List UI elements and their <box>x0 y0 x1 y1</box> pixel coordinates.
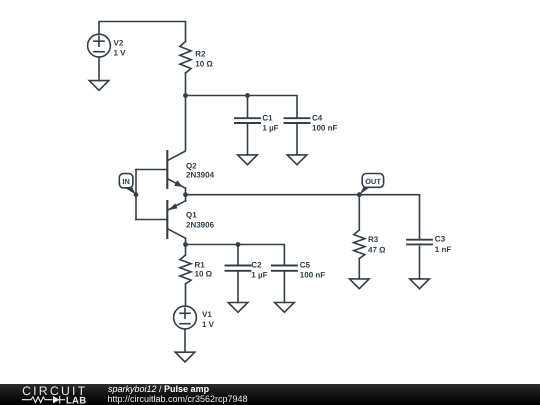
junction node OUT <box>357 192 362 197</box>
footer bar <box>0 384 540 405</box>
capacitor C3 <box>407 240 432 245</box>
ground below C1 <box>238 155 258 165</box>
capacitor C5 <box>272 266 297 271</box>
svg-text:LAB: LAB <box>66 395 87 405</box>
svg-text:100 nF: 100 nF <box>300 271 325 280</box>
svg-text:Q1: Q1 <box>186 211 197 220</box>
wire R1 to V1 <box>185 284 187 306</box>
wire V1 bottom lead <box>184 330 186 353</box>
wire R2 bottom lead <box>185 73 187 96</box>
wire Q2 base lead <box>136 169 167 171</box>
wire emitter row to C3 <box>186 195 420 240</box>
wire C1 bottom lead <box>247 123 249 155</box>
node IN flag <box>119 174 136 195</box>
capacitor C2 <box>226 266 251 271</box>
svg-text:47 Ω: 47 Ω <box>368 245 386 254</box>
svg-text:10 Ω: 10 Ω <box>195 269 213 278</box>
svg-text:1 V: 1 V <box>114 49 127 58</box>
wire Q1 collector row to C5 <box>186 245 285 266</box>
wire Q2 collector lead <box>167 96 185 161</box>
resistor R3 <box>354 230 365 259</box>
wire C4 bottom lead <box>296 123 298 155</box>
wire C2 top lead <box>237 245 239 266</box>
svg-text:C2: C2 <box>251 261 262 270</box>
voltage source V2 <box>88 34 111 57</box>
wire C3 bottom lead <box>419 247 421 279</box>
svg-text:C5: C5 <box>300 261 311 270</box>
svg-text:R3: R3 <box>368 235 379 244</box>
wire R3 bottom lead <box>358 259 360 279</box>
resistor R2 <box>180 42 191 74</box>
wire R1 top lead <box>185 245 187 256</box>
CircuitLab logo <box>0 0 1 1</box>
resistor R1 <box>180 255 191 284</box>
svg-text:C4: C4 <box>312 114 323 123</box>
wire R3 top lead <box>358 195 360 230</box>
svg-text:V2: V2 <box>114 39 124 48</box>
wire node A row to C4 <box>186 96 298 119</box>
Q1 emitter arrow <box>168 203 177 210</box>
svg-text:C1: C1 <box>262 114 273 123</box>
ground below V1 <box>175 352 195 362</box>
svg-text:2N3904: 2N3904 <box>186 171 215 180</box>
svg-text:100 nF: 100 nF <box>312 124 337 133</box>
wire V2 bottom lead <box>98 57 100 81</box>
svg-text:1 V: 1 V <box>202 320 215 329</box>
ground below R3 <box>350 279 370 289</box>
svg-text:1 nF: 1 nF <box>435 245 452 254</box>
junction node C2 top <box>236 242 241 247</box>
svg-text:C3: C3 <box>435 235 446 244</box>
wire C2 bottom lead <box>237 271 239 303</box>
svg-text:10 Ω: 10 Ω <box>195 60 213 69</box>
junction node C1 top <box>245 93 250 98</box>
junction node Q1 collector <box>183 242 188 247</box>
wire C1 top lead <box>247 96 249 119</box>
voltage source V1 <box>174 306 197 329</box>
svg-text:Q2: Q2 <box>186 162 197 171</box>
wire C5 bottom lead <box>283 271 285 303</box>
svg-text:1 µF: 1 µF <box>251 271 267 280</box>
capacitor C4 <box>285 118 310 123</box>
ground below C4 <box>287 155 307 165</box>
svg-text:1 µF: 1 µF <box>262 124 278 133</box>
wire Q1 base lead <box>136 219 167 221</box>
footer credit text <box>108 384 209 394</box>
wire IN vertical <box>135 170 137 220</box>
node OUT flag <box>359 174 383 195</box>
svg-text:OUT: OUT <box>365 177 381 186</box>
ground below C3 <box>410 279 430 289</box>
svg-text:R2: R2 <box>195 49 206 58</box>
svg-text:R1: R1 <box>195 261 206 270</box>
wire V2 top to R2 top <box>99 22 186 42</box>
transistor Q1 <box>167 195 185 245</box>
junction node under R2 <box>183 93 188 98</box>
ground below V2 <box>89 81 109 91</box>
transistor Q2 <box>167 151 185 195</box>
capacitor C1 <box>235 118 260 123</box>
ground below C5 <box>275 303 295 313</box>
ground below C2 <box>228 303 248 313</box>
junction node emitters <box>183 192 188 197</box>
svg-text:V1: V1 <box>202 310 212 319</box>
svg-text:2N3906: 2N3906 <box>186 220 215 229</box>
Q2 emitter arrow <box>174 180 183 187</box>
svg-text:IN: IN <box>122 177 130 186</box>
junction node IN <box>134 192 139 197</box>
